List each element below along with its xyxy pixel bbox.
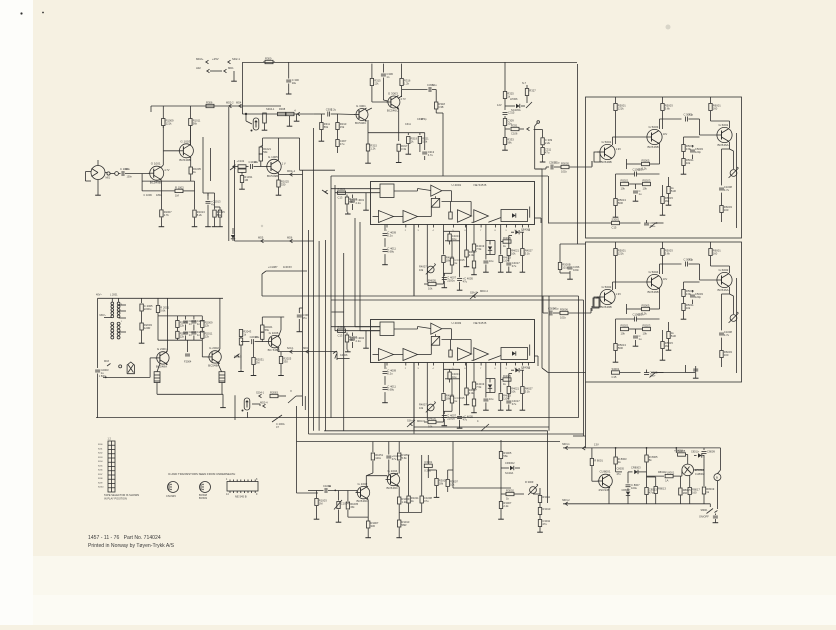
svg-text:47u: 47u bbox=[512, 402, 517, 406]
capacitor C1003 bbox=[119, 167, 150, 178]
svg-text:121k: 121k bbox=[618, 252, 624, 256]
svg-text:MD3-4: MD3-4 bbox=[480, 289, 488, 293]
wire out drop x443 bbox=[442, 113, 444, 176]
svg-text:47u: 47u bbox=[542, 522, 547, 526]
svg-text:5.1k: 5.1k bbox=[525, 252, 531, 256]
svg-text:MD6: MD6 bbox=[287, 236, 293, 239]
resistor R500B bbox=[558, 244, 580, 279]
svg-text:+C8003: +C8003 bbox=[674, 449, 683, 452]
svg-text:12k: 12k bbox=[205, 324, 210, 328]
inductor L2002 bbox=[219, 372, 225, 383]
resistor R311 chain bbox=[319, 114, 331, 141]
wire C1087 row bbox=[262, 265, 307, 274]
svg-text:47u: 47u bbox=[545, 151, 550, 155]
wire stage frame bbox=[263, 138, 300, 170]
svg-text:BC546A: BC546A bbox=[718, 143, 729, 147]
svg-text:56k: 56k bbox=[263, 150, 268, 154]
svg-text:56R: 56R bbox=[402, 523, 407, 527]
svg-text:330: 330 bbox=[283, 360, 288, 364]
svg-text:160: 160 bbox=[713, 252, 718, 256]
resistor R8013 chain bbox=[647, 477, 667, 504]
IC1 out wire bbox=[535, 218, 542, 223]
svg-text:1u: 1u bbox=[639, 337, 642, 341]
svg-text:R4001: R4001 bbox=[338, 187, 346, 191]
node MD6 bbox=[287, 236, 293, 243]
resistor R1061 chain bbox=[365, 521, 379, 538]
svg-text:4.7u: 4.7u bbox=[724, 333, 730, 337]
svg-text:15k: 15k bbox=[340, 125, 345, 129]
svg-text:MD2+1: MD2+1 bbox=[287, 170, 296, 173]
wire bus x319 bbox=[318, 241, 320, 431]
node pin1 bbox=[106, 172, 111, 180]
svg-text:R3013: R3013 bbox=[542, 507, 550, 511]
capacitor C2005 pair bbox=[183, 316, 197, 340]
wire collector G1002 bbox=[366, 476, 387, 488]
node MD2+ +25V rail labels bbox=[196, 57, 240, 64]
svg-text:S203: S203 bbox=[98, 457, 102, 459]
capacitor C4001 bbox=[350, 195, 365, 211]
wire bus y430 bbox=[324, 430, 547, 432]
svg-text:C15: C15 bbox=[612, 375, 617, 379]
svg-text:10k: 10k bbox=[450, 483, 455, 487]
svg-text:G 3001: G 3001 bbox=[356, 104, 366, 108]
svg-text:G 2001: G 2001 bbox=[157, 347, 167, 351]
wire base drop bbox=[141, 174, 143, 191]
svg-text:10u: 10u bbox=[292, 81, 297, 85]
svg-text:ON/OFF: ON/OFF bbox=[699, 515, 709, 519]
svg-text:BC549B: BC549B bbox=[601, 305, 612, 309]
svg-text:15k: 15k bbox=[350, 505, 355, 509]
resistor R318 bbox=[432, 90, 445, 114]
legend heading bbox=[168, 472, 235, 476]
resistor R8003 bbox=[614, 448, 627, 472]
IC U4003 bbox=[371, 320, 535, 371]
wire x540 long bbox=[535, 169, 586, 373]
svg-text:5.1k: 5.1k bbox=[525, 390, 531, 394]
svg-text:10u: 10u bbox=[255, 335, 260, 339]
svg-text:S3001: S3001 bbox=[612, 367, 620, 371]
svg-text:R3002: R3002 bbox=[506, 488, 514, 492]
wire base G2001 bbox=[150, 357, 157, 359]
wire emitter G3003 bbox=[398, 107, 399, 133]
wire bus x325 bbox=[324, 240, 326, 431]
node dot bbox=[245, 113, 252, 124]
svg-text:7.5k: 7.5k bbox=[476, 247, 482, 251]
wire IC2 in2 bbox=[335, 330, 380, 332]
resistor R315 bbox=[370, 64, 381, 102]
svg-text:L 2001: L 2001 bbox=[110, 294, 118, 297]
wire meter feed bbox=[717, 448, 720, 474]
svg-text:56R: 56R bbox=[618, 201, 623, 205]
svg-text:4.7u: 4.7u bbox=[724, 188, 730, 192]
svg-text:10k: 10k bbox=[686, 161, 691, 165]
resistor R331 row bbox=[505, 123, 530, 135]
wire drop x505 bbox=[504, 62, 506, 91]
legend IC package bbox=[226, 478, 258, 499]
svg-text:R4007: R4007 bbox=[419, 265, 427, 269]
wire bus y300 bbox=[331, 299, 584, 301]
svg-text:10k: 10k bbox=[428, 425, 433, 429]
svg-text:120p: 120p bbox=[695, 150, 701, 154]
svg-text:MD1: MD1 bbox=[303, 347, 309, 350]
svg-text:S2010: S2010 bbox=[98, 487, 103, 489]
transistor Q8001 bbox=[598, 470, 613, 492]
svg-text:0.68u: 0.68u bbox=[387, 250, 394, 254]
svg-text:51R: 51R bbox=[671, 334, 676, 338]
node MD2-4 bbox=[252, 401, 268, 408]
wire base feed bbox=[338, 113, 355, 116]
svg-text:BC546B: BC546B bbox=[648, 290, 659, 294]
wire network top bbox=[158, 315, 202, 317]
wire y132 bbox=[368, 132, 425, 134]
wire bus x366 bbox=[363, 193, 369, 349]
svg-text:S304-1: S304-1 bbox=[266, 107, 275, 111]
resistor R1065 chain bbox=[407, 455, 419, 512]
wire x231 bbox=[228, 107, 230, 241]
wire head link bbox=[235, 395, 305, 420]
capacitor C4002 bbox=[350, 333, 365, 349]
wire collector G2001 bbox=[166, 298, 168, 352]
svg-text:S207: S207 bbox=[98, 474, 102, 476]
svg-text:S204-1: S204-1 bbox=[256, 391, 265, 394]
inductor L2001 bbox=[154, 372, 160, 383]
svg-text:12k: 12k bbox=[205, 334, 210, 338]
svg-text:CU8001: CU8001 bbox=[600, 470, 611, 474]
wire bus x344 bbox=[343, 253, 345, 431]
svg-text:LP306: LP306 bbox=[510, 97, 518, 101]
wire osc rail bbox=[98, 297, 223, 299]
svg-text:C8011+: C8011+ bbox=[691, 451, 700, 454]
wire bus x360 bbox=[360, 222, 380, 331]
svg-text:MD4: MD4 bbox=[236, 101, 242, 104]
wire y244 feed bbox=[560, 243, 586, 245]
capacitor C2003 bbox=[95, 368, 109, 418]
svg-text:R4025: R4025 bbox=[503, 374, 511, 378]
resistor R2027 pair bbox=[239, 330, 251, 353]
resistor R1029 bbox=[238, 169, 246, 172]
resistor R1063 chain bbox=[396, 497, 410, 538]
wire collector G3001 bbox=[366, 108, 372, 111]
svg-text:FL8001: FL8001 bbox=[665, 471, 675, 475]
capacitor C336 bbox=[402, 83, 438, 92]
diode CR8003 bbox=[616, 466, 647, 477]
svg-text:10k: 10k bbox=[686, 306, 691, 310]
svg-text:G 1003: G 1003 bbox=[180, 139, 190, 143]
svg-text:39k: 39k bbox=[665, 344, 670, 348]
svg-text:101k: 101k bbox=[560, 316, 566, 320]
wire base G2001 link bbox=[149, 358, 151, 378]
svg-text:C13: C13 bbox=[338, 333, 343, 337]
svg-text:1n: 1n bbox=[386, 75, 389, 79]
svg-text:R300: R300 bbox=[265, 56, 272, 60]
resistor R2002 bbox=[156, 298, 169, 316]
svg-text:BC549B: BC549B bbox=[267, 174, 278, 178]
meter M8001 bbox=[714, 474, 721, 481]
text F2004 bbox=[184, 340, 192, 363]
svg-text:47u: 47u bbox=[617, 473, 622, 476]
svg-text:2.2k: 2.2k bbox=[503, 504, 509, 508]
wire right x550 bbox=[548, 296, 549, 503]
transistor Q1001 bbox=[149, 162, 170, 185]
svg-text:MD2-2: MD2-2 bbox=[226, 101, 234, 104]
svg-text:C 1009: C 1009 bbox=[143, 193, 152, 197]
svg-text:47u: 47u bbox=[424, 499, 429, 503]
svg-text:M03: M03 bbox=[104, 360, 109, 363]
svg-text:1n: 1n bbox=[197, 333, 200, 337]
svg-text:G 5003: G 5003 bbox=[649, 125, 659, 129]
wire collector G2002 bbox=[218, 298, 220, 351]
svg-text:R 3009: R 3009 bbox=[525, 480, 534, 484]
svg-text:470p: 470p bbox=[421, 118, 427, 121]
svg-text:S8001: S8001 bbox=[701, 509, 709, 512]
IC U4001 bbox=[371, 182, 535, 233]
svg-text:4.7V: 4.7V bbox=[164, 168, 170, 172]
record head S304 bbox=[251, 107, 286, 132]
svg-text:16k: 16k bbox=[419, 268, 424, 272]
wire rail y441 bbox=[297, 441, 561, 443]
diode CR8005 bbox=[691, 451, 704, 458]
svg-text:MD2+: MD2+ bbox=[196, 57, 204, 61]
capacitor C1019 bbox=[246, 160, 267, 169]
wire stage rail bbox=[150, 106, 152, 112]
components under U4003 bbox=[382, 345, 533, 434]
svg-text:BC549C: BC549C bbox=[357, 499, 369, 503]
svg-text:C8009: C8009 bbox=[707, 450, 715, 454]
legend transistor sym2 bbox=[199, 482, 211, 501]
svg-text:5.6k: 5.6k bbox=[160, 309, 166, 313]
svg-text:1u: 1u bbox=[328, 484, 331, 488]
switch ON-OFF bbox=[699, 504, 717, 519]
node MD5 bbox=[258, 236, 264, 243]
svg-text:103n: 103n bbox=[638, 168, 644, 172]
svg-text:+C102: +C102 bbox=[237, 159, 245, 163]
svg-text:Printed in Norway by Tøyen-Try: Printed in Norway by Tøyen-Trykk A/S bbox=[88, 543, 175, 549]
diode LP306 bbox=[505, 97, 525, 112]
svg-text:C315: C315 bbox=[508, 111, 515, 115]
wire q8002 out bbox=[694, 459, 705, 486]
svg-text:2.2k: 2.2k bbox=[545, 141, 551, 145]
capacitor C1002 bbox=[308, 484, 357, 493]
svg-text:CU8002: CU8002 bbox=[695, 472, 705, 476]
svg-text:100n: 100n bbox=[127, 176, 133, 179]
wire x262 bbox=[261, 274, 263, 296]
wire drop x414 bbox=[413, 225, 415, 296]
wire feedback y181 bbox=[142, 180, 194, 182]
wire IC1 in2 bbox=[335, 192, 380, 194]
legend transistor sym1 bbox=[166, 482, 179, 499]
svg-text:R 8001: R 8001 bbox=[594, 459, 603, 463]
transistor G1005 bbox=[266, 155, 286, 178]
svg-text:2SC945: 2SC945 bbox=[599, 488, 610, 492]
wire block2 row ext bbox=[651, 365, 699, 378]
transformer taps bbox=[96, 294, 126, 333]
trimmer R1057 chain bbox=[334, 491, 349, 523]
resistor R1025 chain bbox=[276, 173, 290, 195]
resistor R4001 bbox=[338, 187, 346, 199]
wire base G2002 bbox=[202, 340, 209, 357]
resistor R4002 bbox=[338, 325, 346, 337]
transistor G3003 bbox=[386, 92, 406, 113]
wire x236 bbox=[234, 160, 236, 241]
diode CR3002 bbox=[501, 461, 520, 475]
capacitor C3001 bbox=[424, 455, 432, 478]
resistor R1005 bbox=[189, 157, 201, 181]
node MD in bbox=[230, 165, 236, 170]
wire osc left bbox=[97, 298, 99, 368]
trimmer R3009 bbox=[525, 480, 538, 495]
svg-text:14V: 14V bbox=[663, 277, 668, 281]
svg-text:12k: 12k bbox=[374, 82, 379, 86]
svg-text:C4006: C4006 bbox=[340, 354, 348, 357]
switch S on y418 bbox=[272, 415, 285, 429]
svg-text:7.5k: 7.5k bbox=[476, 385, 482, 389]
svg-text:3.9k: 3.9k bbox=[686, 147, 692, 151]
wire y114 bbox=[246, 113, 314, 115]
svg-text:M0V~: M0V~ bbox=[100, 314, 107, 317]
svg-text:330: 330 bbox=[371, 524, 376, 528]
wire emitter Q1001 bbox=[160, 179, 163, 181]
wire meter down bbox=[716, 481, 718, 509]
node pin2 bbox=[115, 172, 119, 176]
transistor G1002 bbox=[356, 482, 370, 503]
svg-text:CR4005: CR4005 bbox=[521, 229, 531, 232]
svg-text:G 6001: G 6001 bbox=[719, 123, 729, 127]
svg-text:U 4001: U 4001 bbox=[452, 183, 462, 187]
svg-text:R306: R306 bbox=[206, 100, 213, 104]
wire supply bottom bbox=[562, 499, 710, 506]
svg-text:CR3002: CR3002 bbox=[505, 461, 515, 465]
svg-text:1u: 1u bbox=[454, 261, 457, 265]
svg-text:3.3k: 3.3k bbox=[401, 147, 407, 151]
wire block2 left drop bbox=[573, 382, 586, 448]
resistor R308 bbox=[278, 112, 295, 115]
svg-text:47p: 47p bbox=[689, 113, 694, 117]
resistor R4003 chain bbox=[345, 195, 358, 215]
paper speck bbox=[20, 12, 670, 228]
node MD arrow bbox=[322, 190, 328, 194]
legend part number bbox=[88, 535, 161, 541]
svg-text:2.2u: 2.2u bbox=[356, 339, 362, 343]
svg-text:C106: C106 bbox=[511, 132, 518, 136]
wire block1 input bbox=[535, 161, 592, 174]
switch S3B-4 bbox=[477, 419, 489, 431]
wire bias top bbox=[203, 137, 215, 196]
svg-text:1A: 1A bbox=[665, 479, 668, 483]
capacitor C1013 chain bbox=[205, 193, 221, 227]
wire drop x414b bbox=[413, 363, 415, 430]
wire bus y488 bbox=[453, 487, 511, 489]
wire collector G1005 bbox=[278, 138, 280, 160]
svg-text:TAPE SELECTOR IS SHOWN: TAPE SELECTOR IS SHOWN bbox=[104, 493, 139, 497]
svg-text:R4005: R4005 bbox=[428, 416, 436, 420]
svg-text:100u: 100u bbox=[631, 486, 637, 490]
components under U4001 bbox=[382, 207, 533, 296]
svg-text:10k: 10k bbox=[621, 187, 626, 191]
svg-text:10u: 10u bbox=[452, 237, 457, 241]
resistor R2031 chain bbox=[251, 344, 265, 376]
svg-text:R4005: R4005 bbox=[428, 278, 436, 282]
resistor chain x540 bbox=[537, 494, 551, 532]
svg-text:R5005: R5005 bbox=[561, 161, 569, 165]
svg-text:1N/15V: 1N/15V bbox=[283, 265, 292, 269]
resistor R316 bbox=[400, 64, 411, 97]
svg-text:0.1u: 0.1u bbox=[554, 161, 560, 165]
svg-text:2200u: 2200u bbox=[447, 417, 455, 421]
wire loop left x331 bbox=[330, 176, 332, 418]
svg-text:10u: 10u bbox=[489, 259, 494, 263]
svg-text:R2063: R2063 bbox=[270, 390, 278, 394]
svg-text:51R: 51R bbox=[671, 189, 676, 193]
svg-text:S3A-4: S3A-4 bbox=[407, 419, 415, 422]
svg-text:S202: S202 bbox=[98, 453, 102, 455]
svg-text:B: B bbox=[716, 476, 718, 480]
svg-text:56R: 56R bbox=[618, 346, 623, 350]
switch S3A-4 bbox=[407, 419, 425, 427]
relay K8005 bbox=[674, 448, 688, 464]
svg-text:47u: 47u bbox=[463, 280, 468, 284]
svg-text:R5023: R5023 bbox=[643, 178, 651, 182]
resistor R4004 chain bbox=[345, 333, 358, 352]
resistor R8011 chain bbox=[645, 472, 657, 504]
svg-text:SC20A: SC20A bbox=[505, 471, 513, 475]
wire x540 bbox=[533, 488, 540, 494]
svg-text:2200u: 2200u bbox=[144, 307, 152, 311]
connector J1 microphone input bbox=[85, 160, 105, 193]
resistor R300 bbox=[263, 56, 275, 63]
capacitor C338 bbox=[297, 308, 310, 332]
resistor R315b chain bbox=[365, 120, 377, 163]
wire right x583b bbox=[583, 300, 585, 436]
resistor R2063 bbox=[270, 390, 286, 397]
svg-text:R5005: R5005 bbox=[642, 158, 650, 162]
connector tap bbox=[262, 113, 268, 130]
svg-text:CR8003: CR8003 bbox=[631, 466, 641, 470]
svg-text:G 1001: G 1001 bbox=[151, 162, 161, 166]
svg-text:R4002: R4002 bbox=[338, 325, 346, 329]
svg-text:BC549B: BC549B bbox=[179, 158, 190, 162]
svg-text:47u: 47u bbox=[340, 142, 345, 146]
wire supply top bbox=[563, 447, 721, 449]
wire y241 link bbox=[235, 240, 314, 242]
transistor Q8002 bbox=[682, 464, 705, 476]
resistor R1021 bbox=[259, 146, 271, 167]
resistor R1027 bbox=[237, 159, 247, 168]
svg-text:U 4003: U 4003 bbox=[452, 321, 462, 325]
capacitor C309b bbox=[287, 116, 293, 127]
svg-text:56k: 56k bbox=[217, 213, 222, 217]
resistor R1017 bbox=[215, 207, 223, 227]
svg-text:47p: 47p bbox=[689, 258, 694, 262]
wire bus x308 bbox=[308, 230, 310, 434]
wire base G1003 bbox=[163, 150, 179, 152]
wire loop left x335 bbox=[334, 185, 336, 331]
wire emitter G2001 bbox=[157, 364, 160, 372]
capacitor C2007 pair bbox=[191, 316, 205, 340]
svg-text:S20-1: S20-1 bbox=[287, 347, 294, 350]
capacitor C306 bbox=[381, 64, 393, 101]
svg-text:IC AND TRANSISTORS SEEN FROM: IC AND TRANSISTORS SEEN FROM UNDERNEATH bbox=[168, 472, 235, 476]
svg-text:10k: 10k bbox=[511, 390, 516, 394]
svg-text:0.68u: 0.68u bbox=[387, 388, 394, 392]
svg-text:10u: 10u bbox=[489, 397, 494, 401]
wire block2 input bbox=[543, 296, 599, 320]
resistor R2021 bbox=[261, 317, 273, 342]
wire x535 bbox=[535, 121, 540, 169]
svg-text:16k: 16k bbox=[419, 406, 424, 410]
capacitor C8007 chain bbox=[622, 472, 641, 504]
diode CR1001 bbox=[231, 228, 235, 241]
svg-text:10u: 10u bbox=[254, 160, 259, 164]
